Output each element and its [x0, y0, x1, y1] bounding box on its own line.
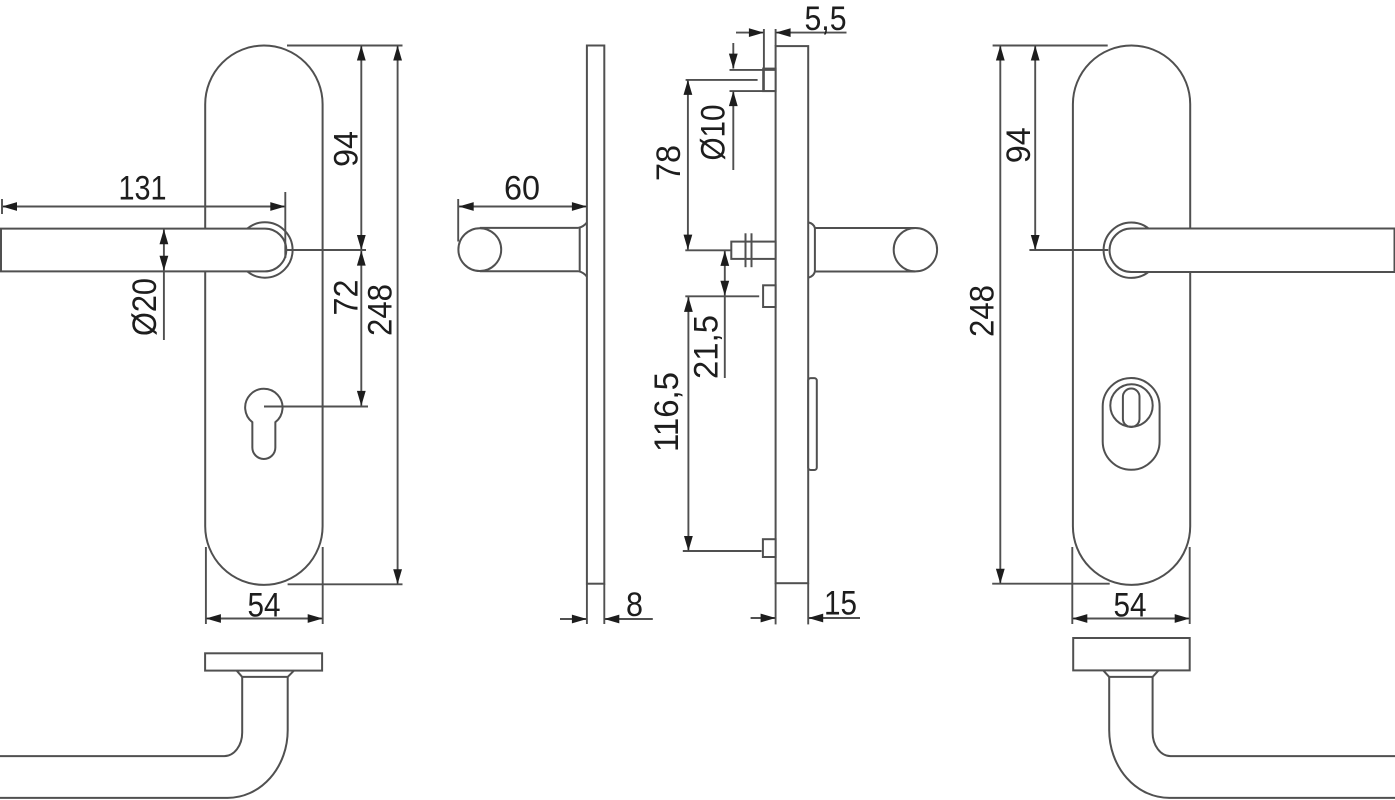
dimension 248 left: plate length — [397, 46, 399, 585]
dimension 94 right: plate top to handle centre — [1034, 46, 1036, 251]
svg-text:248: 248 — [362, 284, 400, 336]
dimension 15: outside plate thickness — [775, 583, 777, 624]
dimension 94 left: plate top to handle centre — [360, 46, 362, 251]
svg-text:54: 54 — [248, 587, 281, 625]
leader line: bottom screw centre — [683, 550, 762, 552]
view 3: bottom fixing screw head — [763, 539, 776, 557]
dimension D10: screw head diameter — [732, 43, 734, 69]
view 2: lever ball end — [458, 228, 501, 271]
leader line: plate top to 94/248 dims — [287, 45, 403, 47]
leader line: top screw centre for 78 dim — [686, 79, 758, 81]
leader line: plate top to 94/248 dims (right) — [993, 45, 1108, 47]
view 4: keyway slot — [1123, 389, 1140, 428]
svg-text:8: 8 — [626, 586, 643, 624]
view 4: lever handle pointing right — [1110, 229, 1395, 273]
svg-text:Ø10: Ø10 — [695, 105, 733, 161]
dimension 116,5: middle screw to bottom screw centre — [687, 296, 689, 551]
svg-text:248: 248 — [964, 285, 1002, 337]
svg-text:94: 94 — [328, 131, 366, 167]
view 3: lever cylinder side view — [815, 228, 916, 272]
view 1: inside backplate front view - rose circle behind lever — [237, 222, 292, 277]
dimension 72: handle centre to keyhole centre — [360, 250, 362, 407]
view 3: middle fixing screw head — [763, 285, 776, 307]
leader line: handle centre (right) — [1029, 249, 1108, 251]
dimension 21,5: spindle centre to middle screw centre — [724, 251, 726, 378]
dimension D20: lever diameter — [163, 229, 165, 272]
svg-text:131: 131 — [119, 170, 167, 208]
bottom view right: bent lever tube — [1109, 677, 1395, 798]
view 4: outside backplate front view - rose circle behind lever — [1104, 223, 1159, 278]
view 4: backplate (54x248 long plate, rounded ends) — [1073, 46, 1190, 585]
svg-text:5,5: 5,5 — [805, 0, 847, 38]
dimension 60: lever projection — [459, 206, 587, 208]
svg-text:72: 72 — [328, 280, 366, 316]
dimension 5,5: screw head protrusion — [763, 29, 765, 92]
view 2: lever cylinder side view — [480, 228, 579, 271]
leader line: keyhole centre to 72 dim — [264, 406, 368, 408]
dimension 248 right: plate length — [999, 46, 1001, 584]
leader lines: top screw top/bottom edges — [730, 69, 776, 71]
svg-text:78: 78 — [650, 145, 688, 181]
dimension 131: lever length — [2, 206, 285, 208]
view 2: neck collar flare at plate — [579, 223, 587, 277]
view 3: spindle washer / nut lines — [745, 233, 747, 267]
view 3: neck collar flare on outer face — [808, 222, 815, 277]
dimension 8: plate thickness — [586, 584, 588, 624]
view 1: PZ keyhole cutout — [245, 389, 282, 459]
view 3: cylinder-cover protrusion on outer face — [808, 378, 817, 470]
dimension 54 right: plate width — [1071, 547, 1073, 624]
svg-text:21,5: 21,5 — [688, 315, 726, 379]
leader line: plate bottom to 248 dim — [288, 583, 403, 585]
dimension 78: screw centre to spindle centre — [687, 80, 689, 250]
svg-text:15: 15 — [824, 585, 857, 623]
view 3: outside set side view - plate strip 15 thick — [776, 46, 809, 583]
leader line: middle screw centre — [685, 295, 759, 297]
leader line: spindle centre — [685, 249, 731, 251]
svg-text:94: 94 — [1000, 127, 1038, 163]
view 2: inside set side view - plate strip 8 thick — [587, 46, 604, 584]
view 1: lever handle (131 long, rounded end cap) — [1, 229, 286, 272]
view 3: lever ball end — [894, 228, 937, 271]
leader line: handle centre to 94/72 dims — [287, 249, 367, 251]
svg-text:60: 60 — [504, 170, 540, 208]
view 3: top fixing screw head — [763, 69, 775, 92]
svg-text:54: 54 — [1114, 587, 1147, 625]
svg-text:116,5: 116,5 — [648, 372, 686, 452]
leader line: plate bottom (right) — [992, 583, 1109, 585]
view 3: spindle shaft — [731, 242, 775, 259]
bottom view left: bent lever tube — [0, 677, 288, 798]
view 4: security rosette oval escutcheon — [1103, 378, 1160, 470]
bottom view left: neck taper cone — [237, 671, 294, 677]
bottom view right: neck taper cone — [1103, 670, 1158, 677]
bottom view left: plate end-on — [205, 653, 322, 670]
bottom view right: plate end-on (15 thick) — [1073, 638, 1190, 670]
dimension 54 left: plate width — [205, 547, 207, 624]
svg-text:Ø20: Ø20 — [126, 278, 164, 336]
view 1: backplate (54x248 long plate, rounded ends) — [205, 46, 322, 585]
view 4: cylinder core circle — [1110, 384, 1152, 426]
